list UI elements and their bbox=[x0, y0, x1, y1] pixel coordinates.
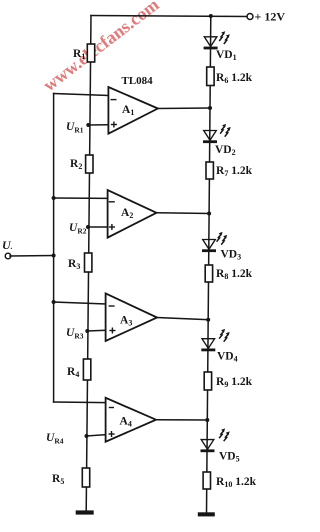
svg-text:TL084: TL084 bbox=[122, 75, 154, 87]
svg-text:+ 12V: + 12V bbox=[255, 10, 286, 24]
svg-text:R9 1.2k: R9 1.2k bbox=[216, 376, 253, 389]
svg-text:R6 1.2k: R6 1.2k bbox=[216, 72, 253, 85]
svg-text:R8 1.2k: R8 1.2k bbox=[216, 268, 253, 281]
svg-text:R10 1.2k: R10 1.2k bbox=[216, 476, 257, 489]
svg-text:R7 1.2k: R7 1.2k bbox=[216, 165, 253, 178]
